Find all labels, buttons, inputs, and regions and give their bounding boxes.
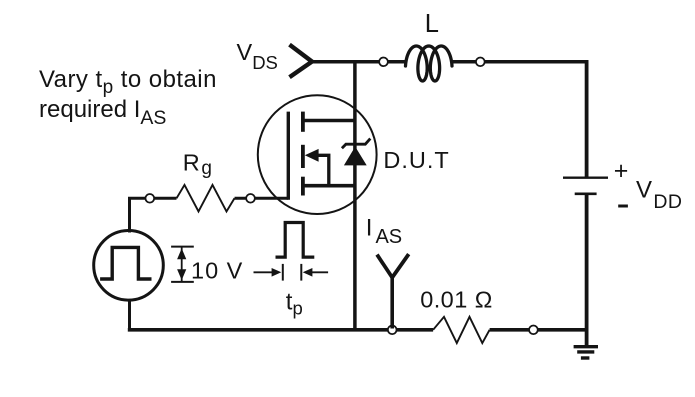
svg-text:0.01 Ω: 0.01 Ω (420, 287, 493, 313)
wire: right branch lower (battery - plate down to ground) (585, 194, 589, 346)
ground symbol (574, 347, 598, 358)
diode: body zener cathode bar with ticks (342, 139, 370, 149)
transistor D.U.T enclosing circle (258, 95, 377, 214)
wire: drain-source bus of D.U.T (top rail junction to bottom rail junction) (353, 62, 357, 330)
probe chevron for VDS measurement (290, 45, 313, 78)
label battery - terminal (618, 205, 628, 208)
node: bottom rail right of 0.01 ohm (529, 325, 538, 334)
node: top rail left of inductor (379, 57, 388, 66)
transistor D.U.T body arrow (points to channel) (305, 149, 319, 162)
wire: bottom rail left segment (pulse generator to 0.01 ohm resistor) (128, 328, 433, 332)
node: gate loop left of Rg (145, 194, 154, 203)
node: gate loop right of Rg (246, 194, 255, 203)
measure: tp width arrows (254, 264, 329, 281)
transistor D.U.T body connection to source (318, 155, 329, 185)
diode: body zener triangle (anode) (344, 147, 367, 166)
pictogram: tp gate pulse (276, 223, 315, 258)
wire: top rail left segment (VDS probe tip to inductor) (312, 60, 408, 64)
svg-text:L: L (425, 10, 439, 38)
node: top rail right of inductor (476, 57, 485, 66)
battery VDD negative plate (short) (575, 193, 597, 196)
svg-text:+: + (614, 157, 629, 185)
transistor D.U.T drain connection (303, 119, 355, 123)
transistor D.U.T channel segment (source) (301, 177, 305, 196)
measure: IAS current arrow (377, 254, 409, 328)
wire: pulse generator bottom lead (128, 300, 131, 330)
inductor L (coil) (406, 46, 453, 81)
pulse waveform inside generator (100, 247, 151, 279)
transistor D.U.T gate electrode (287, 112, 290, 200)
source: pulse generator circle (94, 230, 164, 300)
resistor 0.01 ohm (zigzag) (433, 317, 490, 343)
transistor D.U.T channel segment (drain) (301, 112, 305, 132)
node: bottom rail at IAS sense point (388, 325, 397, 334)
wire: top rail right segment (inductor to top-right corner) (451, 60, 588, 64)
wire: bottom rail right segment (0.01 ohm resistor to right branch) (490, 328, 587, 332)
transistor D.U.T channel segment (body) (301, 145, 305, 168)
svg-text:D.U.T: D.U.T (383, 147, 449, 173)
wire: right branch upper (corner down to battery + plate) (585, 60, 589, 178)
wire: gate lead right segment (Rg to gate) (235, 197, 289, 200)
transistor D.U.T source connection (303, 184, 355, 188)
battery VDD positive plate (long) (563, 177, 608, 179)
wire: gate lead left segment (corner to Rg) (130, 198, 177, 232)
measure: 10 V amplitude double arrow (171, 247, 194, 282)
svg-text:10 V: 10 V (191, 258, 243, 284)
resistor Rg (zigzag) (177, 185, 235, 212)
